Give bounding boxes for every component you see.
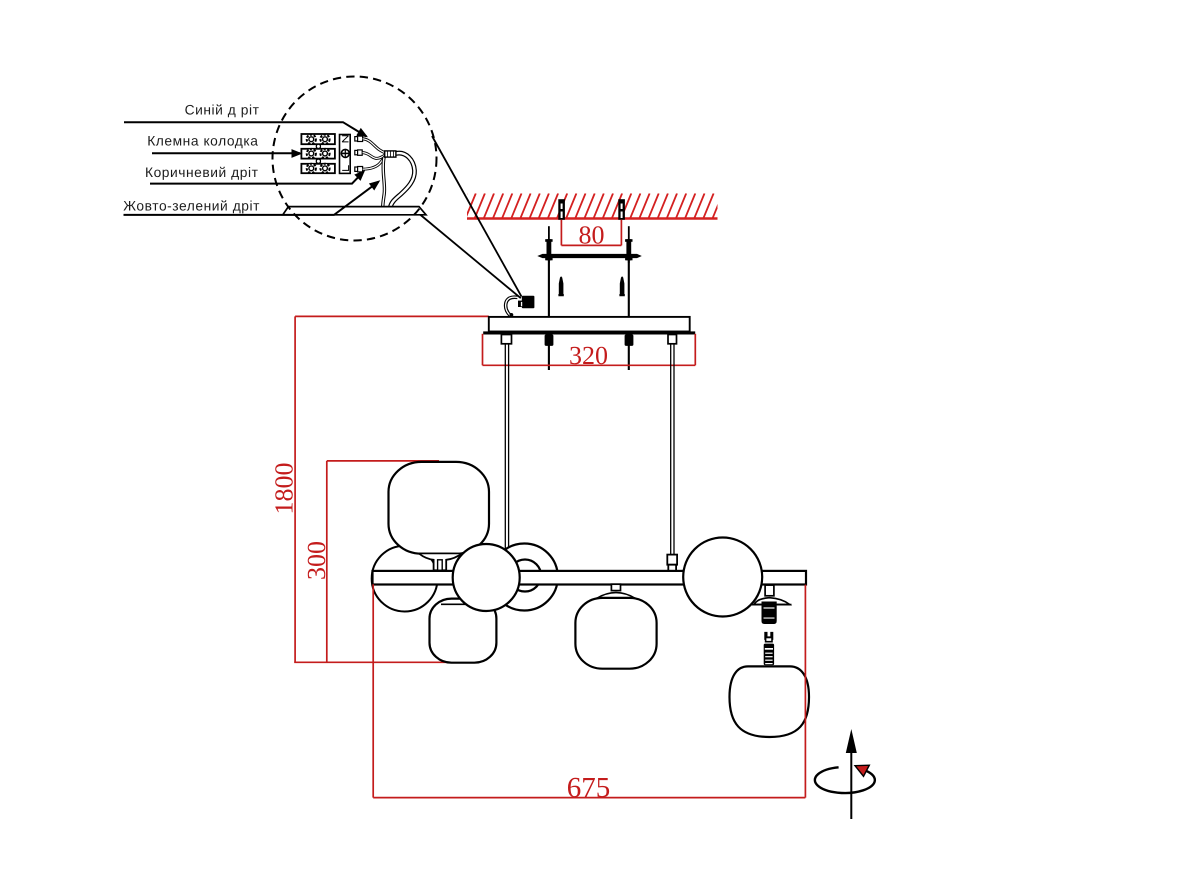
- anchor screw left: [558, 199, 565, 220]
- threaded rod left: [548, 258, 550, 370]
- ceiling hatch: [456, 193, 723, 219]
- shade glass upper-left: [389, 462, 490, 570]
- cable end fitting right: [667, 555, 677, 565]
- shade glass bottom-right: [730, 666, 810, 737]
- dimension 80: [561, 220, 621, 246]
- leader brown wire: [150, 167, 368, 184]
- shade ring outer: [491, 544, 558, 611]
- cable hook at canopy: [506, 297, 518, 317]
- callout leader line lower: [417, 212, 521, 298]
- svg-text:80: 80: [579, 221, 605, 250]
- terminal block: [301, 134, 362, 173]
- canopy plate: [489, 317, 690, 332]
- anchor screw right: [618, 199, 625, 220]
- ceiling line: [467, 217, 718, 219]
- mounting strap: [537, 254, 642, 258]
- dimension 300: [327, 461, 439, 662]
- svg-text:300: 300: [302, 541, 331, 580]
- cable gland left: [501, 335, 511, 344]
- hanger bolt right: [625, 226, 632, 263]
- svg-text:Коричневий дріт: Коричневий дріт: [145, 165, 259, 180]
- rod nut left: [545, 335, 554, 346]
- canopy rim: [483, 331, 695, 334]
- loose screw right: [619, 276, 624, 296]
- wires in callout: [363, 139, 415, 208]
- leader yellow-green wire: [124, 177, 383, 215]
- hanger bolt left: [545, 226, 552, 263]
- svg-text:Жовто-зелений дріт: Жовто-зелений дріт: [123, 199, 260, 214]
- shade ball left: [372, 546, 438, 612]
- callout leader line upper: [432, 136, 522, 297]
- svg-text:675: 675: [567, 772, 611, 804]
- shade ball middle: [453, 544, 520, 611]
- shade glass lower-left: [430, 599, 497, 663]
- svg-text:Синій д ріт: Синій д ріт: [185, 103, 260, 118]
- svg-text:1800: 1800: [270, 463, 299, 515]
- rotation axis arrow: [815, 729, 875, 819]
- svg-text:320: 320: [569, 341, 608, 370]
- canopy edge in callout: [283, 207, 426, 215]
- svg-text:Клемна колодка: Клемна колодка: [147, 133, 258, 148]
- detail callout circle: [273, 77, 437, 241]
- shade ring inner: [509, 560, 541, 592]
- cable connector block: [518, 296, 534, 308]
- dimension 1800: [294, 316, 489, 662]
- lamp holder exploded: [764, 632, 774, 665]
- socket assembly: [752, 585, 792, 624]
- horizontal bar: [373, 571, 807, 585]
- shade ball right: [683, 538, 762, 617]
- leader blue wire: [124, 122, 370, 141]
- threaded rod right: [628, 258, 630, 370]
- dimension 675: [373, 584, 805, 797]
- shade glass bottom-center: [575, 584, 656, 669]
- rod nut right: [625, 335, 634, 346]
- loose screw left: [558, 276, 563, 296]
- suspension cable left: [505, 344, 508, 552]
- cable gland right: [668, 335, 677, 344]
- leader terminal block: [152, 149, 303, 158]
- suspension cable right: [671, 344, 674, 555]
- dimension 320: [483, 334, 696, 366]
